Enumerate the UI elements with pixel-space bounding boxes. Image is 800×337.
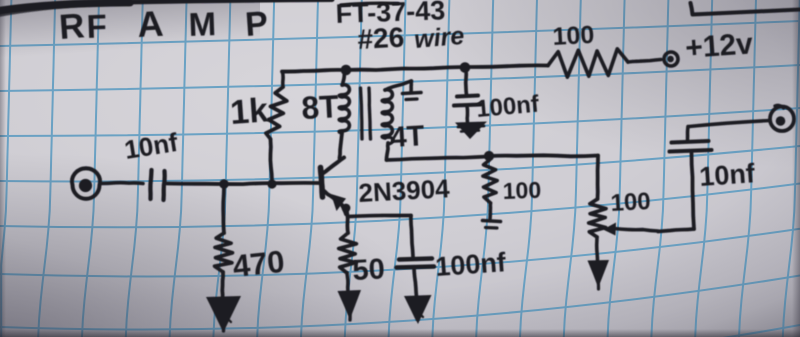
- svg-text:A: A: [136, 3, 164, 45]
- svg-text:F: F: [86, 7, 107, 45]
- svg-text:50: 50: [352, 253, 386, 287]
- svg-text:100nf: 100nf: [434, 247, 507, 282]
- svg-text:#26: #26: [357, 22, 405, 55]
- svg-text:8T: 8T: [300, 88, 340, 126]
- svg-text:M: M: [188, 5, 217, 43]
- svg-text:100: 100: [610, 188, 651, 217]
- svg-text:2N3904: 2N3904: [358, 173, 451, 208]
- svg-text:1k: 1k: [229, 91, 269, 132]
- svg-text:4T: 4T: [390, 120, 426, 154]
- svg-text:470: 470: [231, 244, 286, 284]
- svg-text:100: 100: [502, 177, 541, 204]
- svg-text:P: P: [244, 4, 269, 43]
- svg-text:+12v: +12v: [684, 27, 754, 65]
- svg-text:10nf: 10nf: [698, 158, 756, 192]
- svg-text:R: R: [58, 6, 86, 47]
- svg-text:wire: wire: [413, 22, 465, 54]
- svg-text:100: 100: [552, 21, 595, 51]
- svg-text:100nf: 100nf: [475, 91, 541, 123]
